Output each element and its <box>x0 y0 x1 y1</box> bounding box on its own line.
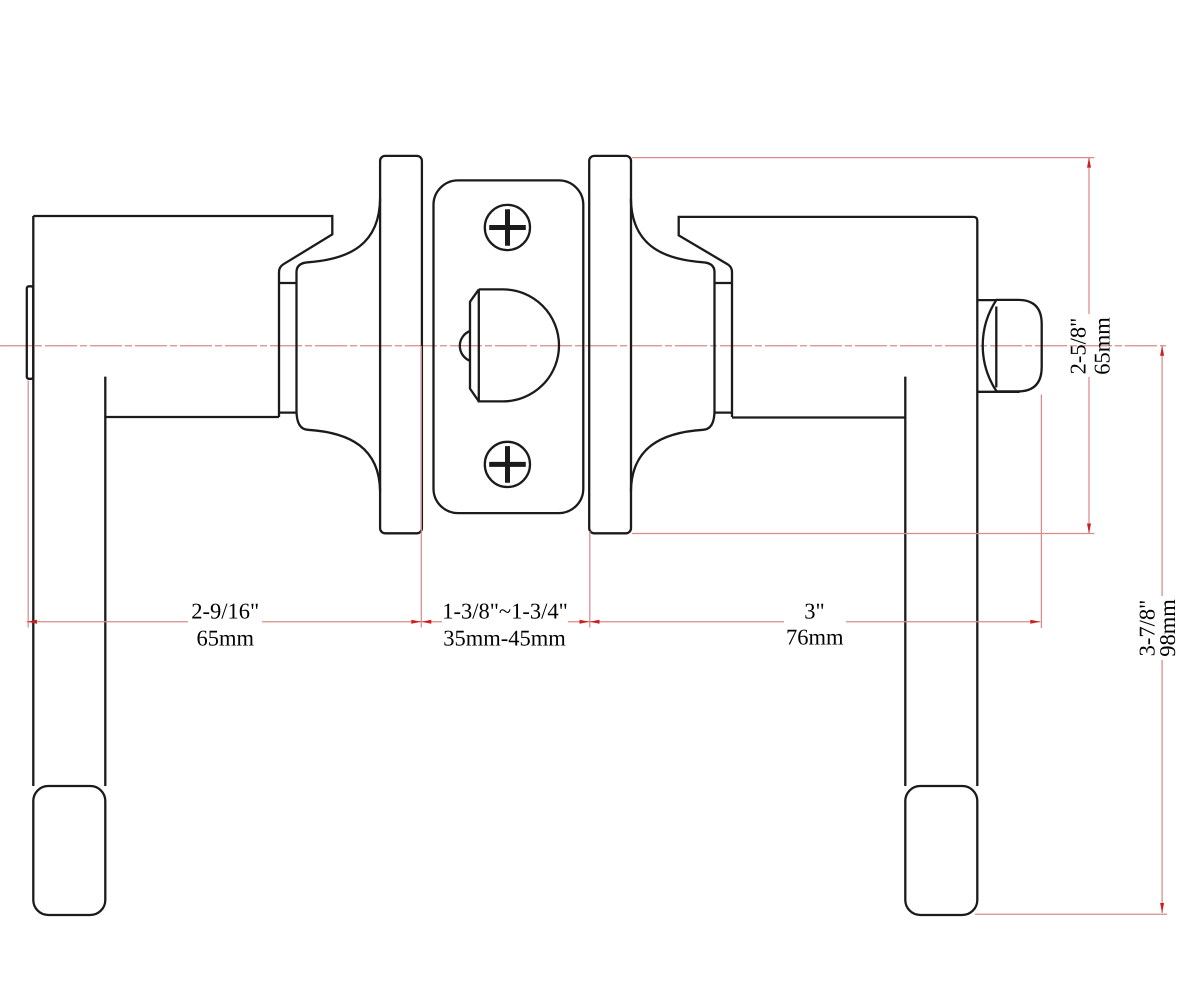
push button face line <box>995 307 997 388</box>
left lever butt cap <box>27 286 34 379</box>
left rose plate <box>380 156 422 533</box>
left grip end piece <box>33 786 105 915</box>
extension line right rose left edge <box>589 531 591 628</box>
push button face <box>983 300 1042 392</box>
svg-text:65mm: 65mm <box>196 625 254 650</box>
centerline <box>0 345 1166 347</box>
svg-text:76mm: 76mm <box>786 624 844 649</box>
svg-text:65mm: 65mm <box>1090 317 1115 375</box>
dimension line horizontal <box>27 621 1041 623</box>
left neck collar tick top <box>279 282 296 284</box>
right grip inner seam <box>904 377 906 786</box>
left neck collar tick bottom <box>279 411 296 413</box>
screw top circle <box>485 205 530 250</box>
left lever bottom edge <box>105 416 279 418</box>
extension line left lever end <box>27 381 29 628</box>
svg-text:98mm: 98mm <box>1155 599 1180 657</box>
extension line rose bottom <box>632 533 1095 535</box>
extension line button right edge <box>1040 395 1042 629</box>
svg-text:3": 3" <box>804 598 824 623</box>
dim arrows horizontal <box>27 620 37 624</box>
push button top edge <box>977 299 996 301</box>
dimension line 2-5/8 vertical <box>1088 158 1090 534</box>
right neck collar tick top <box>715 282 733 284</box>
right lever top edge <box>679 217 978 786</box>
left grip inner seam <box>104 377 106 786</box>
extension line grip bottom <box>975 913 1167 915</box>
extension line rose top <box>632 157 1095 159</box>
svg-text:1-3/8"~1-3/4": 1-3/8"~1-3/4" <box>442 598 568 623</box>
deadlatch plunger <box>460 331 470 361</box>
right neck collar tick bottom <box>715 411 733 413</box>
left lever left edge <box>32 216 34 786</box>
left bell trumpet <box>297 199 381 492</box>
screw bottom cross <box>489 446 526 483</box>
svg-text:2-5/8": 2-5/8" <box>1066 318 1091 375</box>
svg-text:35mm-45mm: 35mm-45mm <box>443 625 566 650</box>
right bell trumpet <box>631 199 715 492</box>
latch faceplate <box>434 180 584 513</box>
svg-text:2-9/16": 2-9/16" <box>191 598 259 623</box>
right grip end piece <box>905 786 977 915</box>
latch bolt body <box>479 289 559 401</box>
screw top cross <box>489 209 526 246</box>
extension line left rose right edge <box>420 346 422 628</box>
dimension line 3-7/8 vertical <box>1161 346 1163 913</box>
push button bottom edge <box>977 391 1019 393</box>
latch bolt face strip <box>470 289 479 401</box>
screw bottom circle <box>485 442 530 487</box>
right lever bottom edge <box>732 416 905 418</box>
right rose plate <box>589 156 631 533</box>
left lever top edge <box>33 216 332 417</box>
